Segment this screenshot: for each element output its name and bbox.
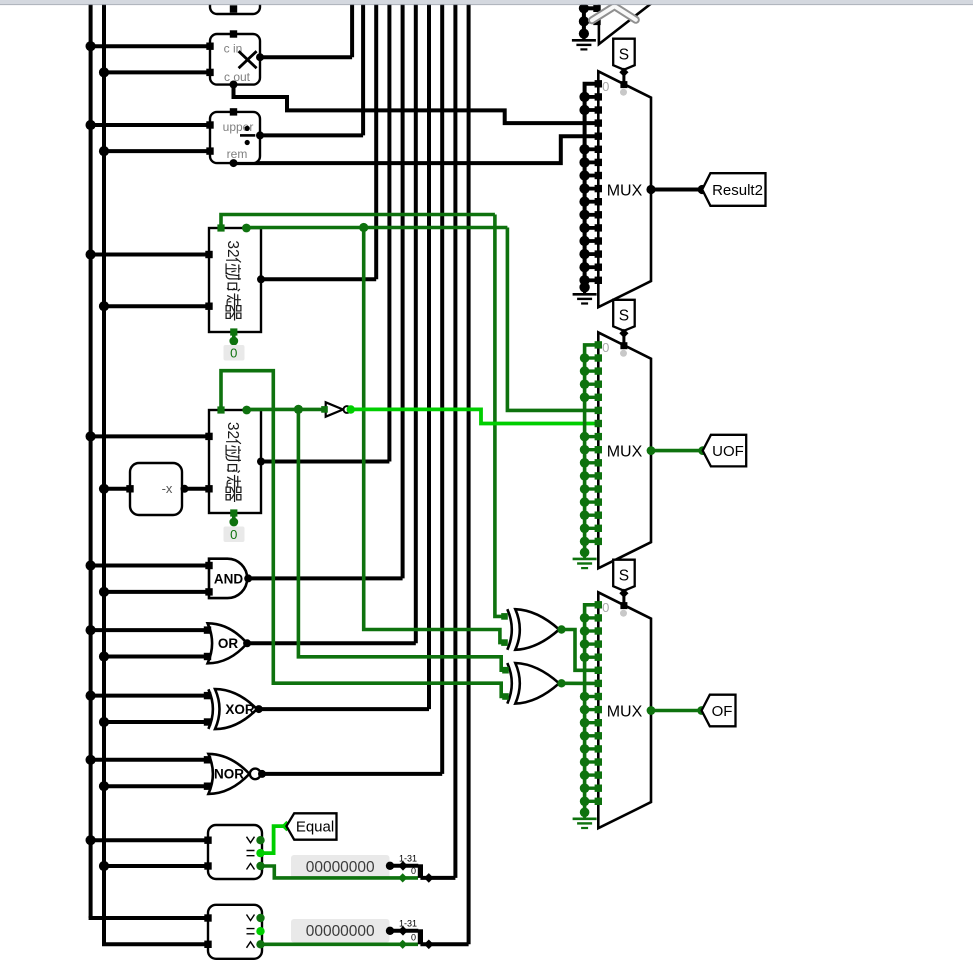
MUX3 input pin 12 (grounded): [585, 500, 599, 503]
MUX2 input pin 15 (grounded): [585, 278, 599, 282]
MUX4 input pin 3 (grounded): [585, 642, 599, 645]
MUX4 input pin 9 (grounded): [585, 721, 599, 724]
svg-text:32: 32: [224, 240, 241, 257]
pin: AND out: [244, 574, 252, 582]
probe: adder1 overflow value 0: [224, 345, 245, 361]
wire: div in A: [91, 123, 210, 127]
pin: mult product out: [256, 53, 264, 61]
NOT gate body: [326, 402, 343, 416]
pin: adder2 sum out: [257, 458, 265, 466]
wire: adder1 sum out: [261, 277, 376, 281]
MUX3 input pin 9 (grounded): [585, 461, 599, 464]
wire: comp1 lt to splitter1: [261, 866, 419, 878]
splitter2 merged bus out: [424, 940, 434, 950]
svg-text:S: S: [619, 307, 629, 324]
wire: splitter2 bus out: [420, 942, 468, 946]
pin: comp1 gt: [256, 836, 264, 844]
adder1 label 32-bit adder: [224, 240, 241, 320]
pin: XOR-A out: [557, 625, 565, 633]
pin: comp1 in B: [204, 862, 211, 869]
wire: mult in A: [91, 44, 210, 48]
MUX3 input pin 8 (grounded): [585, 448, 599, 451]
MUX4 input pin 11 (grounded): [585, 747, 599, 750]
MUX4 input pin 14 (grounded): [585, 787, 599, 790]
MUX3 select tag S: [613, 300, 635, 331]
wire: col 507 down to MUX3 pin5: [507, 228, 598, 411]
svg-text:XOR: XOR: [225, 702, 255, 717]
MUX1 (clipped) left edge: [599, 0, 651, 44]
wire: adder2 c-out row to NOT: [247, 408, 325, 412]
window top bar: [0, 0, 973, 4]
wire: col 299 down to XOR-B top: [298, 409, 505, 670]
multiplier X symbol: [239, 51, 257, 68]
MUX4 input pin 5 (driven): [595, 667, 602, 674]
MUX4 input pin 4 (grounded): [585, 656, 599, 659]
MUX4 input pin 15 (grounded): [585, 800, 599, 803]
wire: adder1 c-in chain row: [221, 215, 495, 229]
wire: AND in B: [104, 590, 209, 594]
wire: AND out riser: [401, 0, 405, 578]
wire: adder2 overflow stub: [232, 513, 236, 522]
tunnel label Result2: [702, 173, 765, 206]
pin: div in A: [206, 121, 213, 128]
MUX3 select wire: [622, 331, 625, 346]
MUX3 input pin 14 (grounded): [585, 527, 599, 530]
MUX2 input pin 14 (grounded): [585, 265, 599, 269]
MUX3 input pin 4 (grounded): [585, 396, 599, 399]
pin: NOR in A: [204, 756, 211, 763]
pin: comp2 eq: [256, 927, 264, 935]
wire: adder2 sum out: [261, 460, 389, 464]
MUX1 ground symbol: [582, 34, 585, 41]
MUX2 input pin 4 (driven): [595, 133, 602, 140]
svg-text:1-31: 1-31: [399, 918, 417, 928]
wire: adder1 in B: [104, 304, 209, 308]
probe1 display 00000000: [291, 855, 390, 879]
pin: XOR out: [255, 705, 263, 713]
pin: XOR in B: [204, 718, 211, 725]
pin: NOT in: [321, 406, 328, 413]
wire: col 363 down to XOR-A bottom: [364, 228, 505, 643]
pin: NOT out: [347, 405, 355, 413]
svg-text:UOF: UOF: [712, 443, 744, 460]
pin: adder1 sum out: [257, 275, 265, 283]
XOR-B gate (overflow): [507, 663, 512, 704]
pin: MUX3 out: [647, 446, 656, 455]
MUX4 input pin 7 (grounded): [585, 695, 599, 698]
wire: OR out: [247, 641, 416, 645]
MUX4 ground symbol: [583, 812, 586, 819]
splitter1 spine: [418, 864, 423, 878]
MUX4 enable pin (gray): [620, 610, 627, 617]
MUX4 input pin 10 (grounded): [585, 734, 599, 737]
adder2 (32-bit) body: [209, 410, 261, 513]
pin: OR out: [243, 639, 251, 647]
svg-text:0: 0: [602, 79, 609, 94]
tunnel label Equal: [286, 813, 336, 839]
MUX2 input pin 1 (grounded): [585, 95, 599, 99]
wire: AND out: [248, 576, 402, 580]
wire: div upper out: [260, 133, 363, 137]
wire: OR in A: [91, 628, 208, 632]
MUX3 input pin 1 (grounded): [585, 356, 599, 359]
MUX3 input pin 13 (grounded): [585, 514, 599, 517]
wire: div rem to MUX2 pin5: [234, 136, 599, 163]
svg-text:1-31: 1-31: [399, 853, 417, 863]
pin: div in B: [206, 147, 213, 154]
AND gate: [209, 559, 247, 598]
MUX2 input pin 12 (grounded): [585, 239, 599, 243]
MUX3 input pin 15 (grounded): [585, 540, 599, 543]
pin: mult top: [230, 30, 237, 37]
MUX4 ground distribution wire: [585, 605, 599, 813]
comparator1 body: [208, 825, 262, 879]
svg-text:S: S: [619, 567, 629, 584]
pin: XOR-B in A: [502, 667, 509, 674]
wire: input bus rail A (vertical): [89, 4, 93, 918]
MUX2 input pin 7 (grounded): [585, 174, 599, 178]
NOR bubble: [250, 769, 261, 780]
pin: comp1 eq: [256, 849, 264, 857]
pin: comp2 gt: [256, 914, 264, 922]
pin: adder1 c-in (top): [217, 224, 224, 231]
pin: adder1 in B: [205, 303, 212, 310]
MUX4 select wire: [622, 591, 625, 606]
negator -x body: [130, 463, 182, 515]
XOR-A gate (overflow): [507, 609, 512, 650]
wire: adder2 in A: [91, 434, 209, 438]
divider / symbol: [245, 126, 250, 131]
wire: adder1 c-out row: [246, 226, 507, 230]
tunnel label UOF: [703, 435, 747, 467]
wire: XOR in A: [91, 694, 208, 698]
MUX4 input pin 2 (grounded): [585, 629, 599, 632]
wire: comp1 in A: [91, 838, 208, 842]
pin: NOR out: [258, 770, 266, 778]
OR gate: [208, 623, 248, 663]
pin: OR in A: [204, 626, 211, 633]
wire: OR in B: [104, 655, 208, 659]
MUX3 input pin 5 (driven): [595, 407, 602, 414]
wire: splitter1 bus out: [420, 876, 455, 880]
MUX3 input pin 7 (grounded): [585, 435, 599, 438]
MUX3 input pin 3 (grounded): [585, 383, 599, 386]
label anchor OF: [697, 706, 706, 715]
wire: OR out riser: [414, 0, 418, 643]
svg-text:0: 0: [230, 527, 237, 542]
pin: div rem out: [230, 159, 238, 167]
pin: mult in B: [206, 69, 213, 76]
label anchor UOF: [698, 446, 707, 455]
pin: AND in A: [205, 562, 212, 569]
wire: XOR in B: [104, 720, 208, 724]
MUX2 input pin 6 (grounded): [585, 160, 599, 164]
wire: mult in B: [104, 70, 210, 74]
pin: adder2 overflow bottom: [230, 509, 237, 516]
splitter1 merged bus out: [424, 873, 434, 883]
svg-text:Equal: Equal: [296, 818, 334, 835]
MUX2 input pin 13 (grounded): [585, 252, 599, 256]
pin: comp2 in A: [204, 914, 211, 921]
pin: partial component bottom pin: [230, 5, 237, 12]
svg-text:0: 0: [602, 340, 609, 355]
pin: negator in: [126, 485, 133, 492]
MUX1 pin stubs: [584, 6, 599, 10]
MUX4 select tag S: [613, 560, 635, 591]
pin: comp1 in A: [204, 837, 211, 844]
pin: MUX2 out: [646, 185, 655, 194]
wire: NOR in A: [91, 758, 208, 762]
wire: adder1 overflow stub: [232, 332, 236, 341]
wire: negator out to adder2: [185, 487, 210, 491]
svg-text:NOR: NOR: [214, 767, 244, 782]
svg-text:MUX: MUX: [607, 703, 643, 720]
MUX2 input pin 9 (grounded): [585, 200, 599, 204]
wire: comp2 in A (rail A elbow): [91, 916, 208, 918]
wire: XOR-B out to MUX4 pin6: [562, 681, 599, 685]
wire: NOR out: [262, 772, 442, 776]
pin: mult c-out: [230, 81, 238, 89]
wire: adder1 sum riser: [374, 0, 378, 279]
MUX3 input pin 0 (grounded): [595, 341, 602, 348]
MUX2 input pin 0 (grounded): [595, 80, 602, 87]
pin: comp2 in B: [204, 941, 211, 948]
MUX2 input pin 3 (driven): [595, 119, 602, 126]
MUX3 ground symbol: [583, 552, 586, 559]
pin: adder2 in A: [205, 433, 212, 440]
wire: negator in: [104, 487, 130, 491]
MUX2 ground symbol: [583, 287, 586, 294]
wire: XOR-A out to MUX4 pin5: [562, 630, 599, 671]
MUX2 ground distribution wire: [585, 84, 599, 287]
svg-text:0: 0: [602, 600, 609, 615]
MUX3 body: [598, 332, 651, 568]
pin: AND in B: [205, 588, 212, 595]
pin: XOR in A: [204, 692, 211, 699]
wire: comp2 bus riser: [467, 0, 471, 944]
wire: MUX4 out to OF: [651, 709, 702, 713]
pin: MUX4 out: [647, 706, 656, 715]
svg-text:c out: c out: [224, 70, 251, 84]
MUX4 input pin 12 (grounded): [585, 760, 599, 763]
pin: XOR-B in B: [502, 693, 509, 700]
svg-text:-x: -x: [162, 481, 173, 496]
pin: XOR-A in B: [501, 639, 508, 646]
MUX3 input pin 6 (driven): [595, 420, 602, 427]
MUX4 input pin 0 (grounded): [595, 601, 602, 608]
adder2 label 32-bit adder: [224, 422, 241, 502]
pin: div top: [230, 108, 237, 115]
label anchor Result2: [698, 185, 707, 194]
tunnel label OF: [702, 695, 736, 727]
MUX3 input pin 2 (grounded): [585, 369, 599, 372]
svg-text:0: 0: [411, 933, 416, 943]
MUX2 select tag S: [613, 39, 635, 70]
MUX4 body: [598, 592, 651, 828]
MUX1 junctions: [579, 3, 589, 13]
junction: adder2 c-out to col 299: [294, 405, 303, 414]
wire: XOR out: [259, 707, 429, 711]
junction: adder1 c-out to col 363: [359, 223, 368, 232]
MUX2 input pin 2 (grounded): [585, 108, 599, 112]
svg-text:AND: AND: [214, 571, 243, 586]
pin: adder1 overflow bottom: [230, 328, 237, 335]
splitter1 probe tap dot: [386, 862, 394, 870]
MUX3 input pin 10 (grounded): [585, 474, 599, 477]
pin: XOR-B out: [557, 679, 565, 687]
multiplier U1 body: [210, 34, 260, 85]
pin: negator out: [181, 485, 189, 493]
wire: adder2 sum riser: [387, 0, 391, 462]
wire: input bus rail B (vertical): [102, 4, 106, 944]
MUX2 input pin 8 (grounded): [585, 187, 599, 191]
wire: comp2 in B (rail B elbow): [104, 942, 208, 944]
wire: adder2 c-in chain: [221, 371, 506, 697]
svg-text:MUX: MUX: [607, 443, 643, 460]
svg-text:0: 0: [230, 346, 237, 361]
MUX4 input pin 1 (grounded): [585, 616, 599, 619]
pin: adder1 in A: [205, 251, 212, 258]
svg-text:00000000: 00000000: [306, 923, 375, 940]
splitter2 probe tap dot: [386, 927, 394, 935]
MUX2 body: [598, 71, 651, 307]
divider U2 body: [210, 112, 260, 163]
splitter2 spine: [418, 929, 423, 944]
wire: NOR in B: [104, 784, 208, 788]
svg-text:00000000: 00000000: [306, 859, 375, 876]
wire: mult product out: [260, 55, 352, 59]
wire: XOR out riser: [427, 0, 431, 709]
wire: MUX2 out to Result2: [651, 188, 702, 192]
svg-text:0: 0: [411, 866, 416, 876]
probe: adder2 overflow value 0: [224, 527, 245, 543]
NOR gate: [208, 754, 249, 794]
MUX2 enable pin (gray): [620, 89, 627, 96]
pin: adder1 c-out (top): [242, 224, 251, 233]
MUX3 ground distribution wire: [585, 345, 599, 553]
pin: comp1 lt: [256, 862, 264, 870]
svg-text:32: 32: [224, 422, 241, 439]
svg-text:S: S: [619, 46, 629, 63]
wire: NOR out riser: [440, 0, 444, 774]
pin: div upper out: [256, 131, 264, 139]
pin: NOR in B: [204, 783, 211, 790]
MUX2 input pin 10 (grounded): [585, 213, 599, 217]
wire: mult product riser: [350, 0, 354, 57]
MUX1 distribution wire: [582, 0, 586, 34]
wire: AND in A: [91, 564, 209, 568]
pin: comp2 lt: [256, 940, 264, 948]
pin: adder2 c-out (top): [242, 406, 251, 415]
MUX2 input pin 5 (grounded): [585, 147, 599, 151]
probe tool icon (gray zigzag): [592, 6, 636, 20]
comparator2 body: [208, 905, 262, 959]
svg-text:OF: OF: [712, 703, 733, 720]
splitter1 fan wire 1-31: [390, 864, 418, 868]
pin: XOR-A in A: [501, 613, 508, 620]
label anchor: Equal: [281, 821, 291, 831]
MUX4 input pin 6 (driven): [595, 680, 602, 687]
adder1 (32-bit) body: [209, 228, 261, 332]
pin: adder2 in B: [205, 485, 212, 492]
wire: MUX3 out to UOF: [651, 449, 703, 453]
MUX3 enable pin (gray): [620, 350, 627, 357]
wire: NOT out to MUX3 pin6 (value 1): [351, 409, 599, 423]
MUX3 input pin 11 (grounded): [585, 487, 599, 490]
svg-text:MUX: MUX: [607, 182, 643, 199]
MUX2 select wire: [622, 70, 625, 85]
MUX4 input pin 13 (grounded): [585, 773, 599, 776]
wire: comp1 eq to Equal label (value 1): [261, 826, 287, 853]
probe2 display 00000000: [291, 919, 390, 943]
wire: mult c-out to MUX2 pin4: [234, 85, 599, 124]
svg-text:Result2: Result2: [712, 182, 763, 199]
pin: adder2 c-in (top): [217, 406, 224, 413]
splitter2 fan wire 1-31: [390, 929, 418, 933]
wire: comp1 bus riser: [453, 0, 457, 878]
pin: OR in B: [204, 653, 211, 660]
MUX4 input pin 8 (grounded): [585, 708, 599, 711]
MUX2 input pin 11 (grounded): [585, 226, 599, 230]
pin: mult in A: [206, 43, 213, 50]
XOR gate: [208, 689, 213, 729]
svg-text:OR: OR: [218, 636, 239, 651]
wire: comp2 lt to splitter2: [261, 942, 419, 946]
wire: adder1 in A: [91, 253, 209, 257]
wire: comp1 in B: [104, 864, 208, 868]
wire: div in B: [104, 149, 210, 153]
svg-text:rem: rem: [227, 147, 248, 161]
partial component top (clipped box): [210, 0, 260, 14]
wire: div upper riser: [361, 0, 365, 135]
wire: col adder1 c-in down to XOR-A top: [495, 215, 505, 617]
